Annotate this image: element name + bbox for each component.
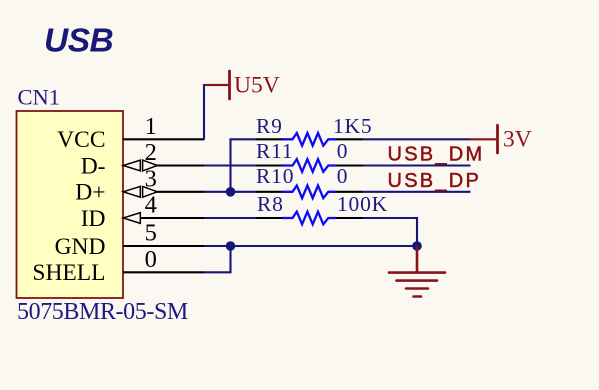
connector CN1 body bbox=[17, 111, 124, 298]
junction dot GND / R8 drop bbox=[412, 241, 422, 251]
pin 2 line bbox=[156, 164, 205, 166]
svg-text:R10: R10 bbox=[256, 164, 294, 188]
junction dot D+ / R9 bbox=[226, 187, 236, 197]
wire D- to R11 bbox=[204, 164, 256, 166]
svg-text:USB_DM: USB_DM bbox=[388, 144, 485, 166]
resistor R10 bbox=[256, 186, 363, 199]
svg-text:VCC: VCC bbox=[57, 127, 105, 153]
wire R9 right to 3V bbox=[363, 138, 471, 140]
svg-text:CN1: CN1 bbox=[18, 85, 61, 110]
power symbol U5V bbox=[206, 71, 230, 99]
svg-text:5075BMR-05-SM: 5075BMR-05-SM bbox=[17, 299, 188, 325]
wire VCC riser to U5V bbox=[204, 85, 207, 139]
svg-text:USB_DP: USB_DP bbox=[388, 170, 482, 192]
svg-text:1K5: 1K5 bbox=[333, 114, 372, 138]
wire R9 left + riser to D+ bbox=[231, 139, 257, 192]
power symbol 3V bbox=[471, 125, 498, 153]
wire GND row bbox=[204, 245, 417, 247]
svg-text:100K: 100K bbox=[337, 192, 388, 216]
svg-text:5: 5 bbox=[145, 220, 157, 247]
pin 0 line bbox=[123, 271, 205, 273]
wire R10 right USB_DP bbox=[363, 191, 471, 193]
pin 3 line bbox=[156, 191, 205, 193]
svg-text:U5V: U5V bbox=[234, 73, 280, 99]
svg-text:0: 0 bbox=[145, 246, 157, 273]
junction dot GND / SHELL bbox=[226, 241, 236, 251]
svg-text:SHELL: SHELL bbox=[32, 260, 105, 286]
resistor R11 bbox=[256, 159, 363, 172]
svg-text:D-: D- bbox=[81, 153, 106, 179]
svg-text:0: 0 bbox=[337, 164, 348, 188]
wire D+ to R10 bbox=[204, 191, 256, 193]
wire ID to R8 bbox=[204, 217, 256, 219]
pin 1 line bbox=[123, 138, 205, 140]
wire SHELL + riser to GND row bbox=[204, 246, 231, 272]
svg-text:1: 1 bbox=[145, 113, 157, 140]
pin 4 line bbox=[140, 217, 205, 219]
pin 5 line bbox=[123, 245, 205, 247]
svg-text:R9: R9 bbox=[256, 114, 283, 138]
pin 2 bidirectional arrows bbox=[123, 160, 157, 171]
wire R8 right + drop to GND net bbox=[363, 218, 417, 246]
resistor R8 bbox=[256, 212, 363, 225]
svg-text:GND: GND bbox=[55, 234, 106, 260]
resistor R9 bbox=[256, 133, 363, 146]
svg-text:USB: USB bbox=[44, 23, 113, 60]
svg-text:R8: R8 bbox=[257, 192, 284, 216]
svg-text:D+: D+ bbox=[75, 180, 105, 206]
pin 3 bidirectional arrows bbox=[123, 186, 157, 197]
svg-text:ID: ID bbox=[81, 206, 106, 232]
svg-text:3V: 3V bbox=[503, 126, 532, 152]
ground symbol bbox=[389, 247, 445, 297]
svg-text:R11: R11 bbox=[256, 139, 293, 163]
svg-text:0: 0 bbox=[337, 139, 348, 163]
pin 4 input arrow bbox=[123, 213, 140, 224]
wire R11 right USB_DM bbox=[363, 164, 471, 166]
